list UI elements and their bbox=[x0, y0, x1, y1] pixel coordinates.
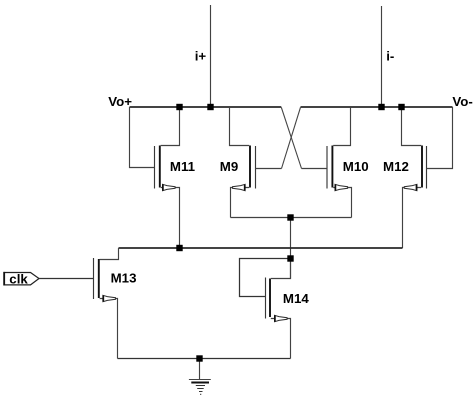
node i+ junction on top rail bbox=[207, 104, 213, 110]
node ground junction on bottom rail bbox=[196, 355, 202, 361]
wire top rail right segment (Vo- rail) bbox=[301, 106, 453, 108]
wire Vo- loop down to M12 gate bbox=[427, 107, 453, 169]
node M11 source junction on middle rail bbox=[176, 245, 182, 251]
node M12 drain junction on top rail bbox=[398, 104, 404, 110]
wire M9 source down to tie rail bbox=[231, 188, 250, 218]
wire M13 drain to middle rail bbox=[100, 248, 119, 260]
svg-text:Vo+: Vo+ bbox=[108, 94, 132, 109]
transistor M12 bbox=[383, 107, 453, 248]
svg-text:i+: i+ bbox=[195, 49, 207, 64]
transistor M10 bbox=[302, 107, 369, 217]
port clk bbox=[4, 271, 94, 286]
ground bbox=[189, 359, 211, 395]
wire cross-couple diagonal from Vo+ rail to M10 gate bbox=[281, 107, 301, 168]
svg-text:clk: clk bbox=[9, 271, 28, 286]
wire M14 source down to bottom rail bbox=[271, 319, 291, 359]
svg-text:M9: M9 bbox=[220, 159, 238, 174]
wire M14 gate diode loop bbox=[240, 259, 291, 297]
node M14 gate junction bbox=[287, 255, 293, 261]
wire M12 source down to middle rail bbox=[403, 188, 422, 249]
wire M9 gate to cross-couple bbox=[256, 168, 282, 170]
wire cross-couple diagonal from Vo- rail to M9 gate bbox=[282, 107, 301, 168]
wire bottom rail bbox=[118, 358, 291, 360]
transistor M14 bbox=[240, 259, 310, 359]
channel bar M12 bbox=[421, 146, 423, 188]
transistor M9 bbox=[220, 107, 282, 218]
node i- junction on top rail bbox=[378, 104, 384, 110]
wire M12 drain to top rail bbox=[402, 107, 422, 146]
wire clk to M13 gate bbox=[39, 278, 94, 280]
wire i- input line bbox=[381, 6, 383, 107]
gate bar M10 bbox=[326, 146, 328, 189]
transistor M11 bbox=[155, 107, 196, 248]
wire M13 source down to bottom rail bbox=[100, 299, 118, 359]
channel bar M10 bbox=[331, 146, 333, 188]
wire Vo+ loop down to M11 gate bbox=[130, 107, 155, 168]
svg-text:M10: M10 bbox=[343, 159, 369, 174]
source arrow M9 bbox=[233, 184, 246, 190]
wire i+ input line bbox=[210, 5, 212, 107]
wire tie rail joining M9/M10 sources bbox=[231, 217, 352, 219]
wire M10 source down to tie rail bbox=[333, 188, 351, 218]
wire M14 drain from gate node bbox=[271, 259, 291, 279]
source arrow M11 bbox=[163, 184, 176, 190]
svg-text:i-: i- bbox=[386, 48, 394, 63]
svg-text:M14: M14 bbox=[283, 291, 309, 306]
svg-text:M11: M11 bbox=[170, 159, 196, 174]
gate bar M13 bbox=[93, 258, 95, 299]
gate bar M9 bbox=[255, 146, 257, 189]
source arrow M12 bbox=[404, 184, 417, 190]
node M11 drain junction on top rail bbox=[176, 104, 182, 110]
node tail junction on tie rail bbox=[287, 214, 293, 220]
source arrow M13 bbox=[103, 295, 116, 301]
channel bar M14 bbox=[269, 279, 271, 318]
gate bar M12 bbox=[426, 146, 428, 189]
source arrow M14 bbox=[275, 315, 288, 321]
wire M11 drain to top rail bbox=[161, 107, 180, 145]
channel bar M9 bbox=[249, 146, 251, 188]
wire middle rail from M13 drain to M12 source bbox=[119, 247, 403, 249]
svg-text:Vo-: Vo- bbox=[452, 94, 472, 109]
wire tail node down to M14 drain bbox=[290, 218, 292, 279]
wire M10 gate to cross-couple bbox=[302, 168, 328, 170]
gate bar M14 bbox=[265, 278, 267, 319]
wire top rail left segment (Vo+ rail) bbox=[130, 106, 282, 108]
channel bar M13 bbox=[98, 259, 100, 298]
transistor M13 bbox=[94, 248, 137, 359]
svg-text:M13: M13 bbox=[111, 271, 137, 286]
wire M9 drain to top rail bbox=[230, 107, 250, 146]
svg-text:M12: M12 bbox=[383, 159, 409, 174]
wire M10 drain to top rail bbox=[333, 107, 350, 145]
channel bar M11 bbox=[159, 146, 161, 188]
wire M11 source down to middle rail bbox=[161, 188, 180, 249]
source arrow M10 bbox=[335, 184, 348, 190]
gate bar M11 bbox=[154, 146, 156, 189]
